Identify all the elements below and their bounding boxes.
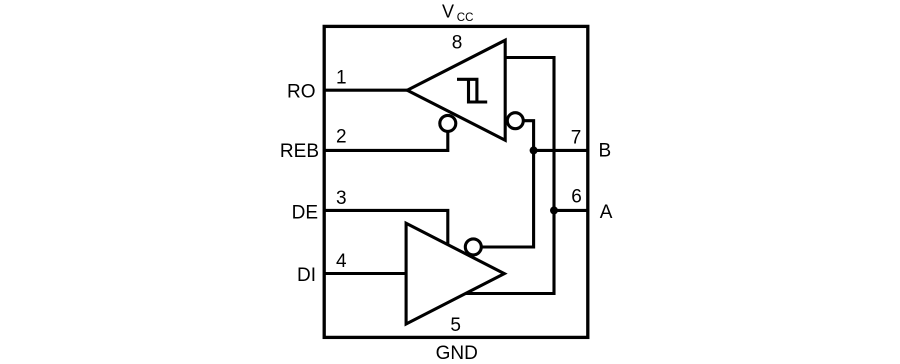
svg-text:7: 7 [571, 127, 582, 148]
svg-text:DE: DE [292, 202, 318, 223]
svg-text:3: 3 [336, 188, 347, 209]
svg-text:GND: GND [436, 343, 478, 364]
svg-text:5: 5 [450, 315, 461, 336]
svg-text:2: 2 [336, 127, 347, 148]
svg-text:8: 8 [452, 32, 463, 53]
svg-text:4: 4 [336, 251, 347, 272]
svg-text:DI: DI [297, 265, 316, 286]
svg-text:CC: CC [457, 12, 474, 24]
svg-text:RO: RO [287, 82, 316, 103]
svg-text:REB: REB [280, 141, 319, 162]
svg-text:A: A [600, 202, 613, 223]
svg-text:1: 1 [336, 67, 347, 88]
svg-text:B: B [599, 141, 612, 162]
svg-text:V: V [442, 1, 454, 21]
svg-text:6: 6 [571, 187, 582, 208]
